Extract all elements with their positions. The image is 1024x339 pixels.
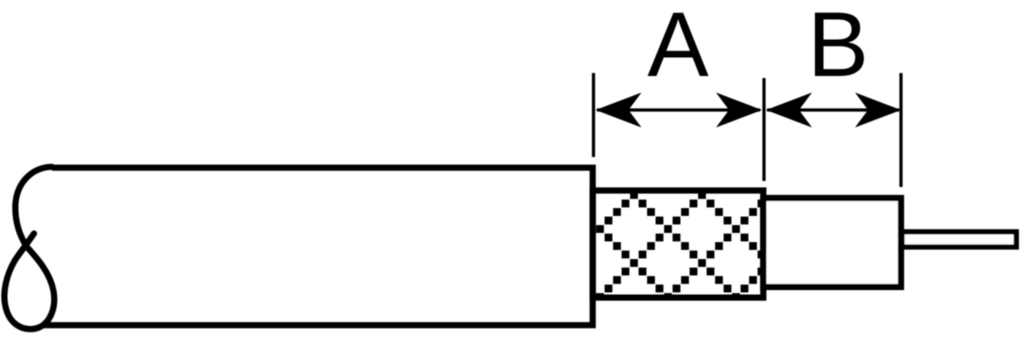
dimension tick middle (A/B) [762,78,765,181]
dielectric section [763,198,901,287]
dimension tick left (A) [592,73,595,157]
braided shield section [593,191,764,298]
arrowhead B right [855,93,901,128]
cable break curl [4,167,54,329]
svg-text:B: B [807,0,868,96]
cable outer jacket [44,168,593,326]
center conductor [902,232,1016,247]
arrowhead B left [766,93,812,128]
arrowhead A right [716,93,762,128]
svg-text:A: A [647,0,709,96]
dimension arrow B shaft [767,108,899,111]
dimension arrow A shaft [597,108,760,111]
dimension tick right (B) [899,73,902,187]
arrowhead A left [596,93,642,128]
